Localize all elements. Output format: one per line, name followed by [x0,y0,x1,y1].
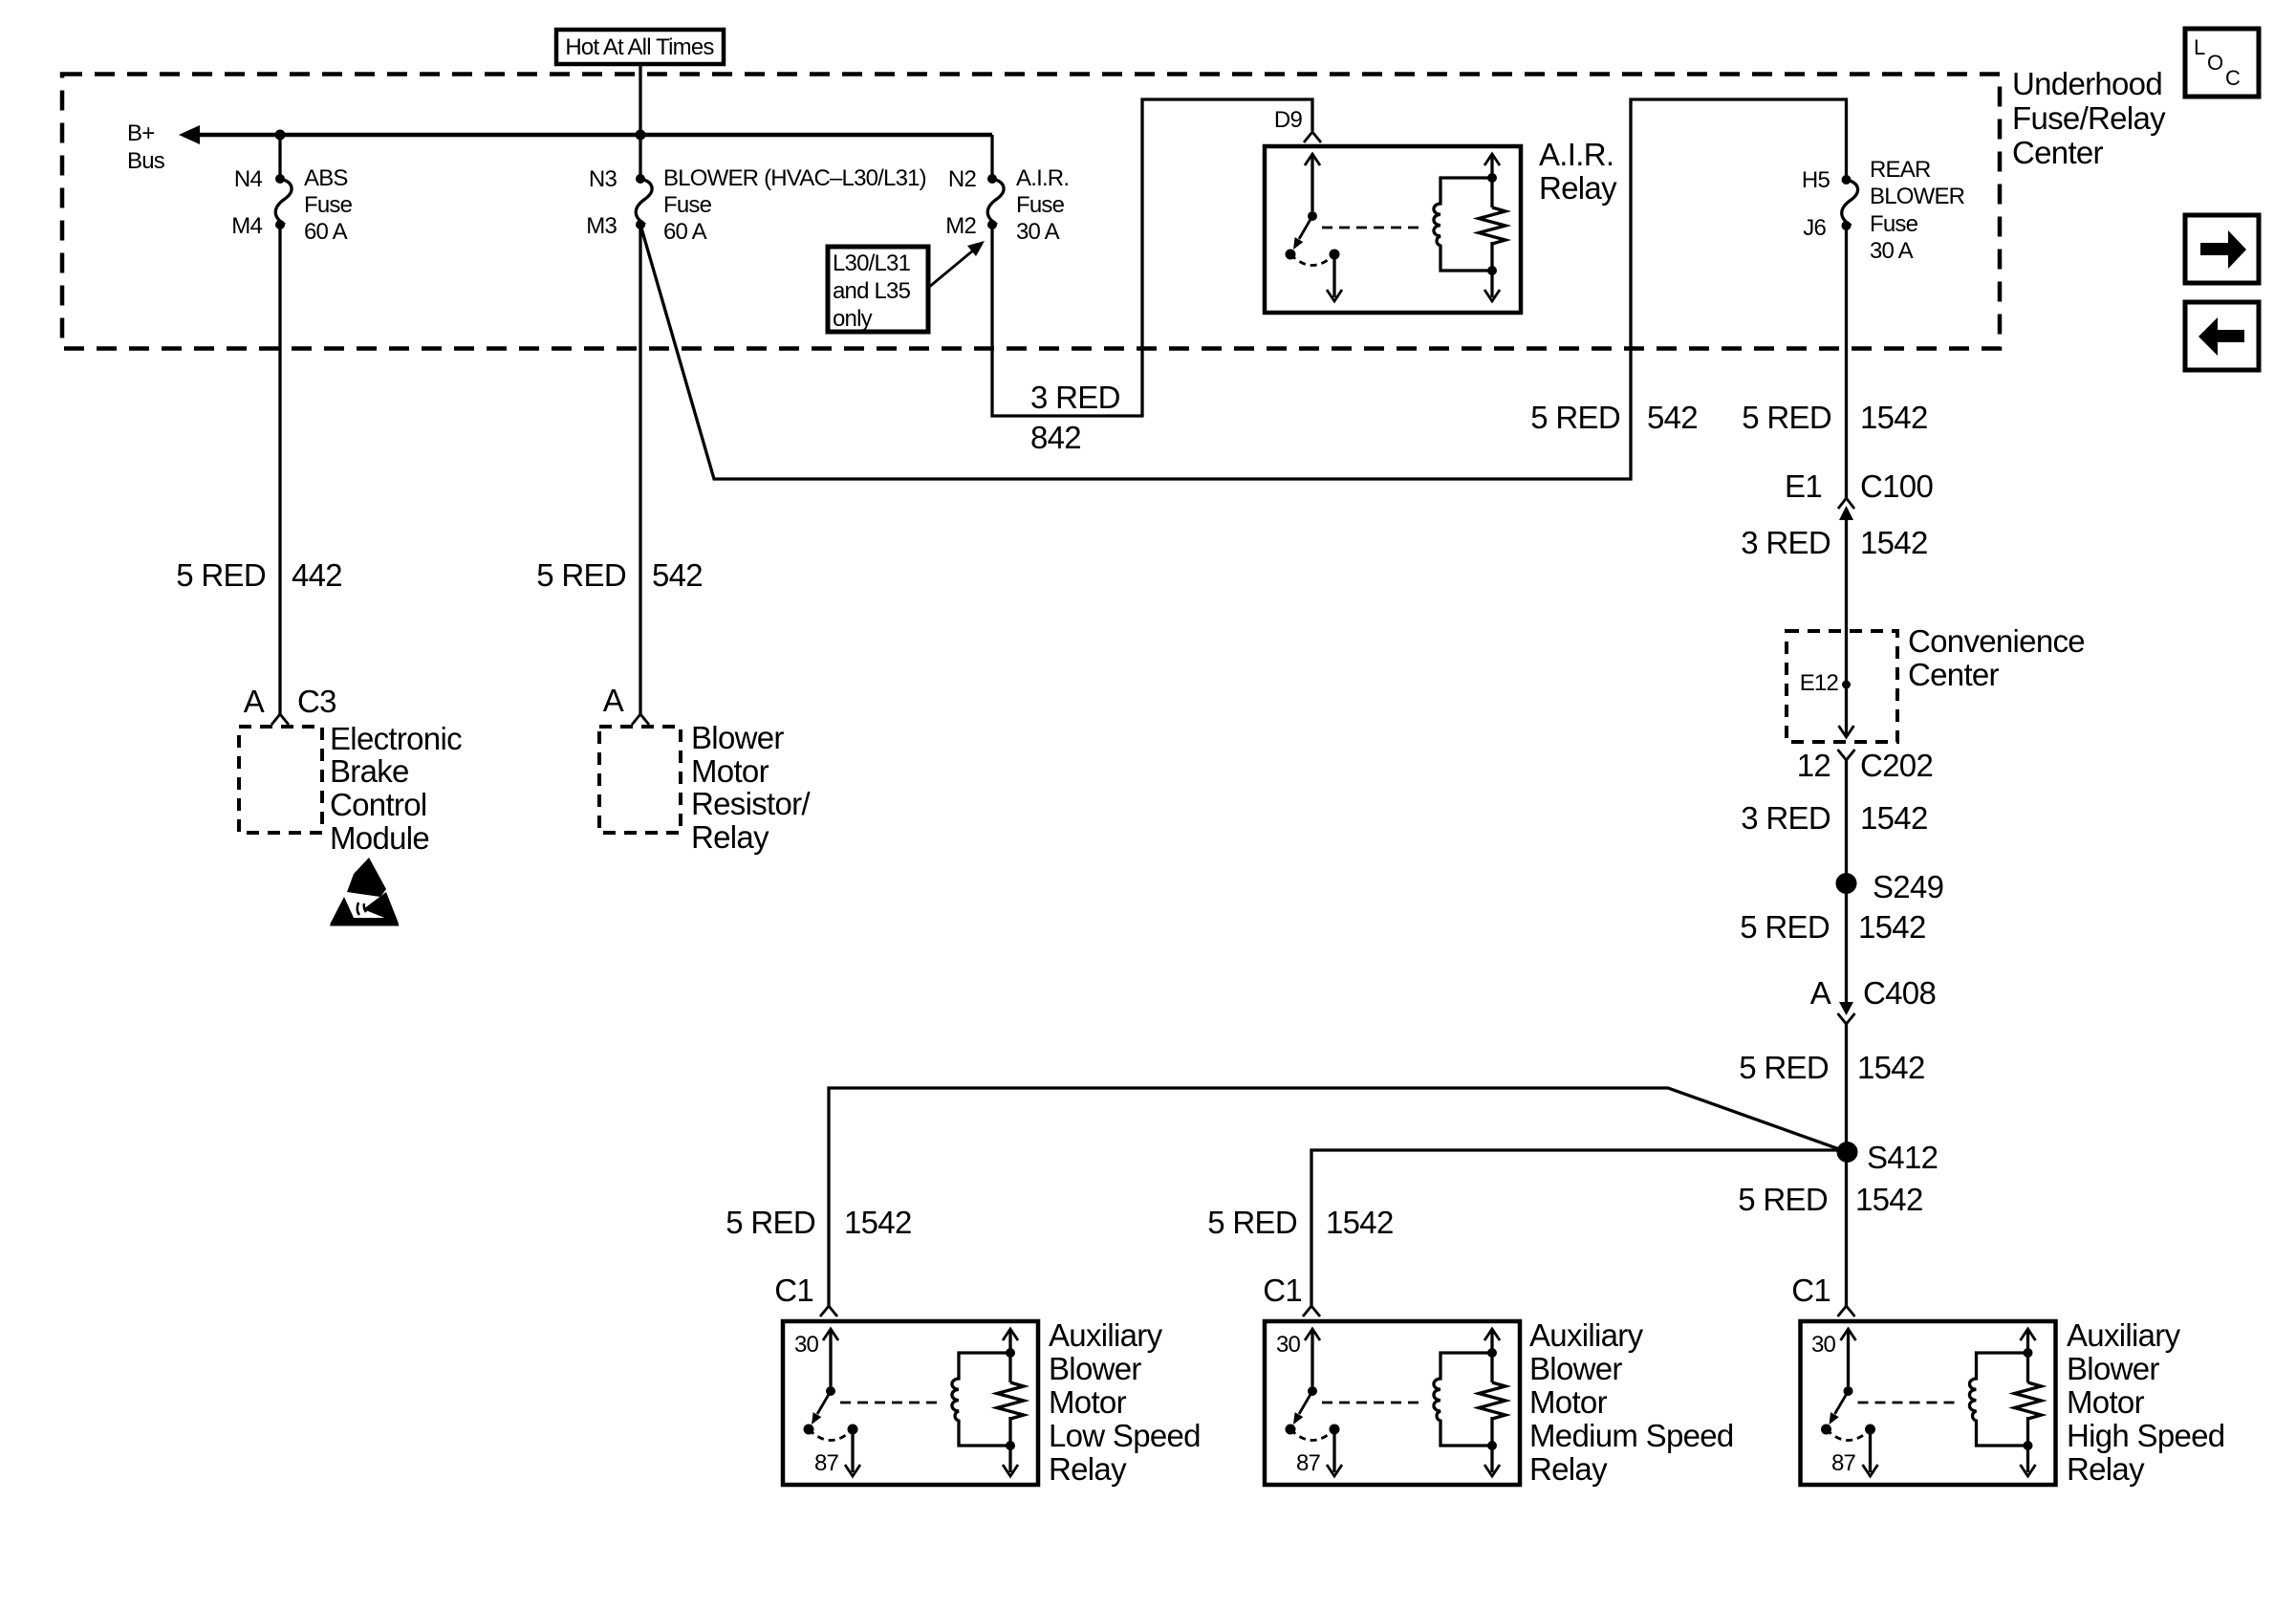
wire B: BLOWER fuse M3 down to blower resistor [639,225,641,714]
relay U1 A.I.R. Relay [1265,146,1521,313]
node B+ Bus [127,120,165,174]
svg-text:Relay: Relay [2067,1451,2145,1487]
svg-text:C408: C408 [1863,975,1936,1011]
svg-text:1542: 1542 [1858,909,1926,945]
svg-text:C3: C3 [297,684,336,719]
svg-text:Relay: Relay [1539,170,1617,206]
svg-text:5 RED: 5 RED [1530,400,1620,435]
fuse F3 A.I.R. Fuse 30A [987,174,1004,229]
svg-text:542: 542 [652,557,703,593]
svg-text:30 A: 30 A [1870,238,1914,264]
fuse F4 REAR BLOWER Fuse 30A [1842,175,1858,230]
label Convenience Center [1908,623,2085,692]
relay K1 Auxiliary Blower Motor Low Speed Relay [783,1321,1038,1485]
svg-text:3 RED: 3 RED [1741,525,1830,560]
svg-text:Low Speed: Low Speed [1049,1418,1201,1453]
svg-text:ABS: ABS [304,165,348,191]
svg-text:C1: C1 [1263,1273,1302,1308]
value label BLOWER (HVAC-L30/L31) Fuse 60 A [663,165,926,245]
wire Hot feed drop [639,64,641,135]
label wire 5 RED 1542 (to relay2) [1207,1205,1393,1240]
wire J6 down to C100 [1845,226,1848,498]
svg-text:Center: Center [1908,657,2000,692]
label Auxiliary Blower Motor Medium Speed Relay [1529,1317,1734,1487]
svg-text:REAR: REAR [1870,157,1931,183]
svg-text:C202: C202 [1860,748,1933,783]
label wire 3 RED 1542 [1741,800,1927,836]
wire A: ABS fuse M4 down to EBCM [278,225,281,714]
label wire 5 RED 442 [176,557,342,593]
svg-text:30 A: 30 A [1016,219,1060,245]
svg-text:High Speed: High Speed [2067,1418,2224,1453]
svg-text:3 RED: 3 RED [1741,800,1830,836]
fuse F1 ABS Fuse 60A [275,174,292,229]
label wire 5 RED 1542 [1740,909,1925,945]
connector C3 pin A (EBCM) [244,684,336,725]
label wire 5 RED 542 [536,557,703,593]
label wire 5 RED 542 (top) [1530,400,1698,435]
label wire 3 RED 842 [1030,380,1120,455]
svg-text:Blower: Blower [1049,1351,1141,1386]
svg-text:A: A [244,684,265,719]
svg-text:Auxiliary: Auxiliary [1529,1317,1644,1353]
svg-text:S412: S412 [1867,1140,1938,1175]
svg-text:C: C [2225,66,2241,90]
svg-text:5 RED: 5 RED [1207,1205,1297,1240]
svg-text:Medium Speed: Medium Speed [1529,1418,1734,1453]
svg-text:12: 12 [1797,748,1830,783]
svg-text:M3: M3 [586,213,617,239]
svg-text:5 RED: 5 RED [1739,1050,1829,1085]
svg-text:1542: 1542 [844,1205,912,1240]
svg-text:5 RED: 5 RED [536,557,626,593]
Underhood Fuse/Relay Center box (dashed) [62,75,2000,349]
svg-text:5 RED: 5 RED [1738,1182,1828,1217]
svg-text:A.I.R.: A.I.R. [1539,137,1614,172]
label wire 5 RED 1542 (to relay3) [1738,1182,1922,1217]
connector C1 (relay1) [774,1273,837,1316]
svg-text:Fuse: Fuse [1016,192,1065,218]
svg-text:Motor: Motor [2067,1384,2145,1420]
svg-text:87: 87 [814,1450,839,1476]
svg-text:30: 30 [794,1332,819,1358]
wire 842 path M2 to A.I.R. relay D9 [992,99,1312,416]
connector C202 pin 12 [1797,748,1933,783]
splice S249 [1836,869,1944,904]
svg-text:30: 30 [1276,1332,1301,1358]
svg-text:Auxiliary: Auxiliary [2067,1317,2181,1353]
svg-text:5 RED: 5 RED [726,1205,815,1240]
wire B+ bus [179,125,992,144]
svg-text:Fuse/Relay: Fuse/Relay [2012,100,2166,136]
svg-text:C1: C1 [1791,1273,1830,1308]
svg-text:A: A [1810,975,1831,1011]
wire S249 to C408 [1845,883,1848,1002]
note box L30/L31 and L35 only [828,247,928,332]
svg-text:E1: E1 [1785,468,1822,504]
svg-text:only: only [833,306,873,332]
connector C100 pin E1 [1785,468,1933,520]
wire S412 branch to low speed relay [829,1088,1848,1306]
connector C408 pin A [1810,975,1936,1024]
svg-text:5 RED: 5 RED [176,557,266,593]
svg-text:Blower: Blower [1529,1351,1622,1386]
svg-text:L30/L31: L30/L31 [833,250,911,276]
wire C100 to convenience center [1845,509,1848,631]
label wire 3 RED 1542 [1741,525,1927,560]
svg-text:B+: B+ [127,120,154,146]
svg-text:Relay: Relay [691,819,769,855]
svg-text:87: 87 [1296,1450,1321,1476]
wire C408 to S412 to relay3 C1 [1845,1024,1848,1306]
svg-text:C100: C100 [1860,468,1933,504]
connector D9 (A.I.R. relay pin) [1274,107,1321,142]
svg-text:1542: 1542 [1860,400,1928,435]
label wire 5 RED 1542 (top) [1742,400,1927,435]
svg-text:1542: 1542 [1326,1205,1394,1240]
svg-text:A.I.R.: A.I.R. [1016,165,1069,191]
svg-text:D9: D9 [1274,107,1303,133]
relay K3 Auxiliary Blower Motor High Speed Relay [1801,1321,2056,1485]
svg-text:Relay: Relay [1529,1451,1608,1487]
label Auxiliary Blower Motor Low Speed Relay [1049,1317,1201,1487]
label Underhood Fuse/Relay Center [2012,66,2166,170]
svg-text:Fuse: Fuse [663,192,712,218]
svg-text:S249: S249 [1873,869,1943,904]
svg-text:Center: Center [2012,135,2104,170]
wire inside convenience center, terminal E12 [1800,631,1854,737]
module Blower Motor Resistor/Relay (dashed) [599,720,811,855]
label wire 5 RED 1542 [1739,1050,1924,1085]
wire C202 to S249 [1845,760,1848,883]
svg-text:N3: N3 [589,166,617,192]
left-arrow icon [2185,302,2259,370]
pointer arrow from note box to M2 [928,241,985,288]
svg-text:Module: Module [330,820,429,856]
label Auxiliary Blower Motor High Speed Relay [2067,1317,2224,1487]
svg-text:and L35: and L35 [833,278,911,304]
svg-text:N2: N2 [948,166,977,192]
svg-text:1542: 1542 [1857,1050,1925,1085]
value label A.I.R. Fuse 30 A [1016,165,1069,245]
svg-text:Electronic: Electronic [330,721,462,756]
svg-text:J6: J6 [1803,215,1826,241]
splice S412 [1837,1140,1939,1175]
svg-text:M2: M2 [945,213,976,239]
wire bus to ABS fuse N4 [278,135,281,179]
fuse F2 BLOWER (HVAC-L30/L31) Fuse 60A [636,174,652,229]
LOC icon [2185,29,2259,97]
svg-text:Blower: Blower [2067,1351,2159,1386]
svg-text:87: 87 [1831,1450,1856,1476]
svg-text:Blower: Blower [691,720,784,755]
label wire 5 RED 1542 (to relay1) [726,1205,911,1240]
svg-text:842: 842 [1030,420,1081,455]
svg-text:Brake: Brake [330,753,409,789]
relay K2 Auxiliary Blower Motor Medium Speed Relay [1265,1321,1520,1485]
svg-text:Fuse: Fuse [1870,211,1918,237]
svg-text:Relay: Relay [1049,1451,1127,1487]
svg-text:542: 542 [1647,400,1698,435]
svg-text:1542: 1542 [1860,525,1928,560]
svg-text:30: 30 [1811,1332,1836,1358]
svg-text:Control: Control [330,787,426,822]
svg-text:C1: C1 [774,1273,813,1308]
right-arrow icon [2185,215,2259,283]
svg-text:1542: 1542 [1855,1182,1923,1217]
svg-text:3 RED: 3 RED [1030,380,1120,415]
junction bus / blower fuse [636,130,646,141]
svg-text:60 A: 60 A [304,219,348,245]
svg-text:H5: H5 [1802,167,1830,193]
svg-text:5 RED: 5 RED [1740,909,1830,945]
Convenience Center box (dashed) [1787,631,1897,742]
svg-text:Bus: Bus [127,148,165,174]
svg-text:Motor: Motor [691,753,769,789]
svg-text:Motor: Motor [1049,1384,1127,1420]
wire bus to BLOWER fuse N3 [639,135,641,179]
svg-text:BLOWER (HVAC–L30/L31): BLOWER (HVAC–L30/L31) [663,165,926,191]
svg-text:Auxiliary: Auxiliary [1049,1317,1163,1353]
svg-text:Hot At All Times: Hot At All Times [565,34,714,60]
svg-text:442: 442 [292,557,342,593]
wire S412 branch to medium speed relay [1311,1150,1848,1306]
svg-text:Resistor/: Resistor/ [691,786,811,821]
svg-text:O: O [2207,51,2223,75]
svg-text:Convenience: Convenience [1908,623,2085,659]
svg-text:Underhood: Underhood [2012,66,2162,101]
module Electronic Brake Control Module (dashed) [239,721,462,856]
svg-text:BLOWER: BLOWER [1870,184,1965,209]
svg-text:5 RED: 5 RED [1742,400,1831,435]
wire 542 path M3 to rear blower fuse H5 [640,99,1847,479]
value label ABS Fuse 60 A [304,165,353,245]
svg-text:60 A: 60 A [663,219,707,245]
svg-text:L: L [2194,35,2205,59]
node Hot At All Times [556,30,724,64]
svg-text:M4: M4 [231,213,262,239]
svg-text:A: A [603,683,624,718]
svg-text:Motor: Motor [1529,1384,1608,1420]
svg-text:E12: E12 [1800,670,1839,696]
svg-text:N4: N4 [234,166,263,192]
value label REAR BLOWER Fuse 30 A [1870,157,1965,264]
connector C1 (relay2) [1263,1273,1320,1316]
connector C1 (relay3) [1791,1273,1854,1316]
ESD sensitivity symbol [330,858,400,926]
label A.I.R. Relay [1539,137,1617,206]
svg-text:1542: 1542 [1860,800,1928,836]
svg-text:Fuse: Fuse [304,192,353,218]
connector pin A (blower resistor) [603,683,649,725]
junction bus / ABS fuse [275,130,286,141]
wire bus to A.I.R. fuse N2 [990,135,993,179]
